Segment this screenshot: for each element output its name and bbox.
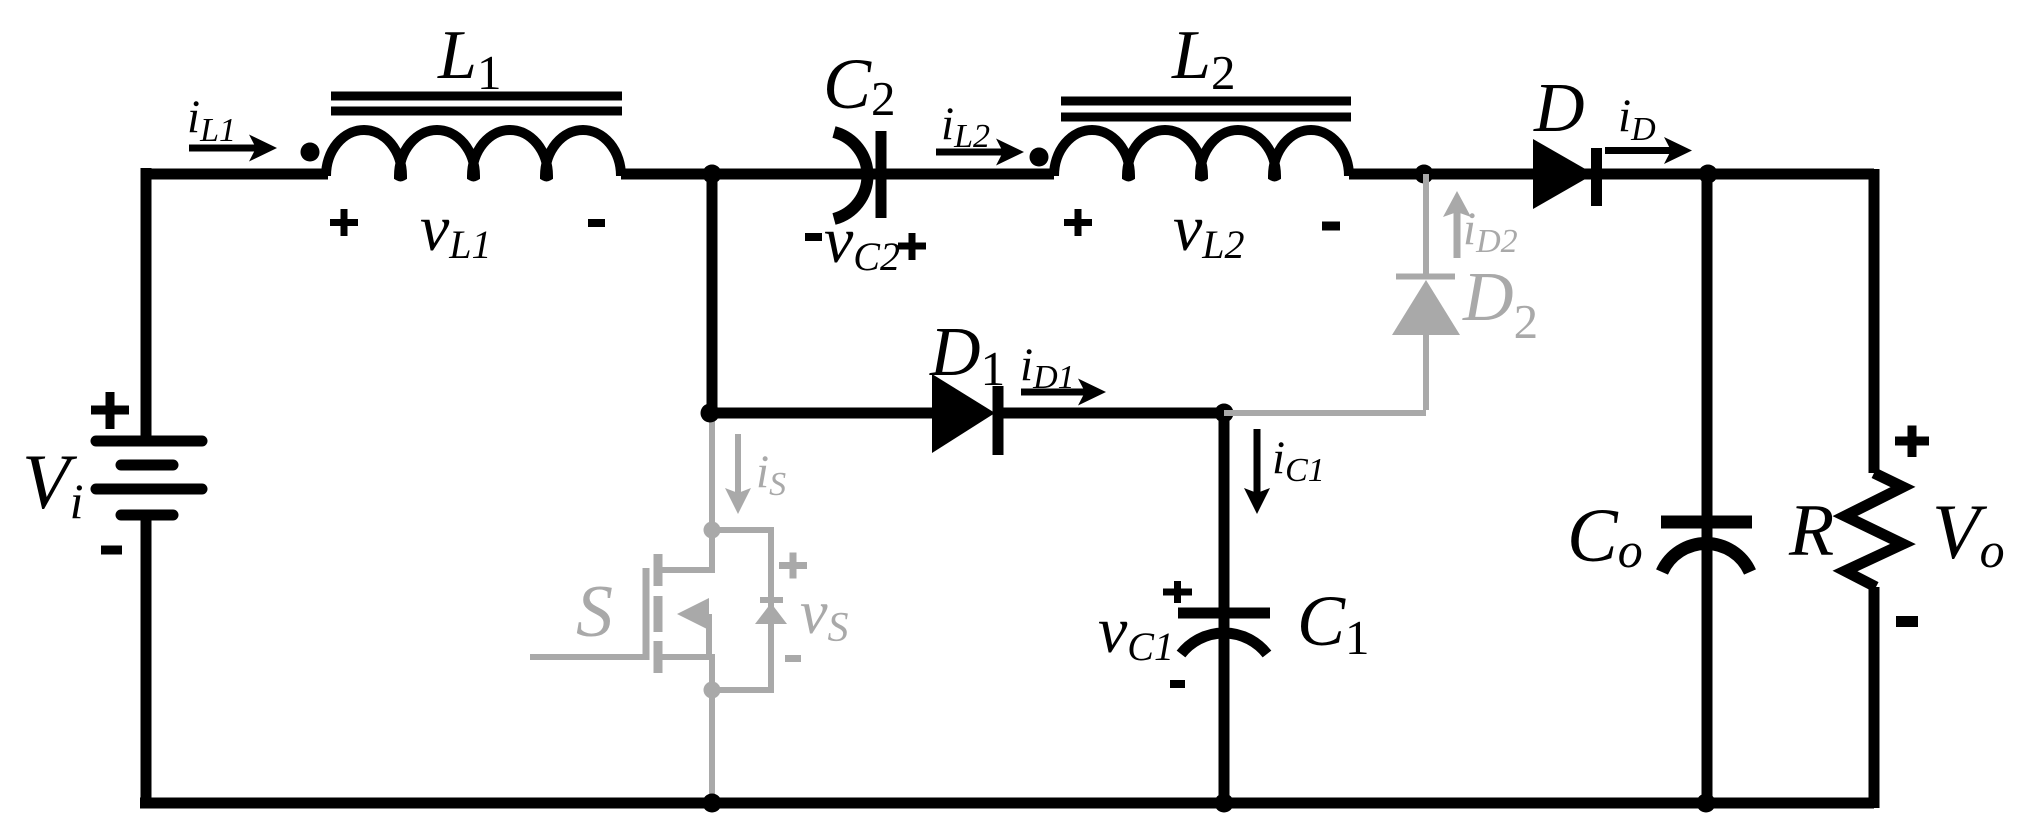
svg-text:vS: vS bbox=[800, 579, 849, 651]
capacitor Co curved plate (bottom) bbox=[1662, 543, 1750, 572]
inductor L2 winding bbox=[1054, 130, 1349, 176]
svg-text:iD2: iD2 bbox=[1463, 203, 1518, 260]
diode D cathode bar bbox=[1591, 148, 1602, 206]
svg-text:C2: C2 bbox=[823, 44, 896, 126]
svg-text:C1: C1 bbox=[1297, 581, 1370, 665]
svg-text:L1: L1 bbox=[437, 17, 501, 100]
wire right vertical lower (R to bottom) bbox=[1869, 587, 1880, 808]
inductor L2 core line lower bbox=[1061, 113, 1351, 122]
wire L1 to C2 bbox=[621, 169, 1054, 180]
inductor L1 core line lower bbox=[331, 107, 622, 116]
wire bottom horizontal rail bbox=[140, 798, 1874, 809]
node dot: D1 cathode / C1 junction bbox=[1215, 404, 1234, 423]
svg-text:S: S bbox=[576, 571, 613, 653]
inductor L1 winding bbox=[326, 130, 621, 176]
diode D1 triangle bbox=[932, 374, 995, 453]
diode D1 cathode bar bbox=[993, 386, 1004, 455]
svg-text:iS: iS bbox=[756, 446, 786, 503]
wire S gate lead bbox=[530, 654, 643, 660]
wire: gray D2 branch bbox=[1224, 174, 1426, 413]
wire D2 vertical upper bbox=[1423, 174, 1429, 274]
diode: S body diode cathode bar (gray) bbox=[760, 597, 783, 603]
wire node A vertical (C2 junction down to D1 anode) bbox=[707, 174, 718, 413]
label + vC1 - bbox=[1163, 581, 1192, 603]
node dot: S source (gray) bbox=[704, 682, 721, 699]
label + vS - (gray) bbox=[779, 553, 807, 579]
label - vC2 + bbox=[805, 233, 822, 241]
arrow iD1 bbox=[1021, 379, 1106, 406]
wire D1 cathode horizontal to C1 node bbox=[1003, 408, 1224, 419]
node dot: bottom rail under C1 bbox=[1215, 794, 1234, 813]
node dot: bottom rail under Co bbox=[1697, 794, 1716, 813]
svg-text:Vi: Vi bbox=[22, 438, 84, 529]
capacitor C2 curved plate bbox=[834, 132, 867, 219]
inductor L2 core line upper bbox=[1061, 97, 1351, 106]
arrow iD bbox=[1605, 137, 1692, 164]
node dot: L2 polarity dot bbox=[1030, 148, 1049, 167]
svg-text:D: D bbox=[1533, 70, 1585, 147]
svg-text:iC1: iC1 bbox=[1272, 432, 1325, 489]
wire top-left horizontal from source to L1 bbox=[146, 169, 328, 180]
arrow iS (gray, down) bbox=[725, 434, 751, 514]
svg-text:iD: iD bbox=[1618, 90, 1656, 148]
node dot: L1 polarity dot bbox=[301, 143, 320, 162]
wire right vertical upper (to R) bbox=[1869, 169, 1880, 473]
wire L2 to diode D bbox=[1349, 169, 1874, 180]
wire left vertical lower (Vi - terminal) bbox=[141, 515, 152, 803]
node dot: bottom rail under S bbox=[703, 794, 722, 813]
svg-text:vC2: vC2 bbox=[824, 204, 900, 279]
transistor S channel bar middle bbox=[654, 596, 663, 632]
arrow iL2 bbox=[936, 139, 1024, 166]
wire C1 top vertical bbox=[1219, 413, 1230, 803]
capacitor Co flat plate (top) bbox=[1661, 516, 1752, 529]
transistor S substrate arrow bbox=[677, 598, 709, 630]
svg-text:iL2: iL2 bbox=[941, 98, 990, 155]
svg-text:vL1: vL1 bbox=[420, 192, 492, 267]
node dot: S drain (gray) bbox=[704, 522, 721, 539]
arrow iD2 (gray, up) bbox=[1443, 191, 1471, 258]
wire D2 vertical lower and horizontal to C1 node bbox=[1224, 335, 1426, 413]
inductor L1 core line upper bbox=[331, 92, 622, 101]
transistor S gate electrode bbox=[643, 568, 650, 660]
wire Co top vertical bbox=[1702, 174, 1713, 803]
capacitor C2 flat plate bbox=[876, 131, 887, 218]
arrow iL1 bbox=[189, 135, 277, 162]
svg-text:vC1: vC1 bbox=[1098, 594, 1174, 669]
wire S body-diode branch bbox=[712, 530, 771, 690]
diode D2 cathode bar (gray) bbox=[1396, 274, 1455, 280]
svg-text:L2: L2 bbox=[1171, 17, 1235, 100]
node dot: D1 anode junction bbox=[701, 404, 720, 423]
arrow iC1 (down) bbox=[1244, 429, 1270, 514]
wire S source lead bbox=[662, 657, 712, 690]
label + vL2 - bbox=[1064, 209, 1092, 236]
battery Vi + label bbox=[91, 392, 129, 429]
node dot: Co top junction bbox=[1699, 165, 1718, 184]
diode D triangle bbox=[1533, 139, 1594, 209]
wire S drain vertical (gray) bbox=[709, 418, 715, 530]
label + vL1 - bbox=[330, 209, 358, 236]
svg-text:D1: D1 bbox=[929, 314, 1005, 396]
node A: junction dot at C2 branch (top) bbox=[703, 165, 722, 184]
transistor S channel bar top bbox=[654, 554, 663, 586]
svg-text:iD1: iD1 bbox=[1020, 339, 1075, 396]
resistor R zigzag bbox=[1845, 473, 1903, 587]
node dot: D2 anode junction (top) bbox=[1415, 165, 1434, 184]
svg-text:Co: Co bbox=[1567, 494, 1643, 578]
wire D1 anode horizontal bbox=[710, 408, 936, 419]
wire left vertical upper (Vi + terminal) bbox=[141, 168, 152, 441]
transistor S channel bar bottom bbox=[654, 641, 663, 673]
label Vo with + - bbox=[1895, 426, 1929, 458]
svg-text:D2: D2 bbox=[1462, 259, 1538, 349]
wire S substrate vertical bbox=[706, 614, 712, 657]
svg-text:R: R bbox=[1788, 490, 1834, 572]
wire S drain lead bbox=[662, 530, 712, 570]
capacitor C1 flat plate (top) bbox=[1178, 608, 1270, 619]
svg-text:vL2: vL2 bbox=[1173, 192, 1245, 267]
diode D2 triangle (gray) bbox=[1392, 280, 1460, 335]
diode: S body diode triangle (gray) bbox=[755, 603, 787, 624]
svg-text:Vo: Vo bbox=[1932, 488, 2005, 578]
transistor S (gray MOSFET) bbox=[530, 418, 771, 800]
wire: main black wires bbox=[140, 168, 1874, 808]
battery Vi - label bbox=[101, 546, 122, 555]
battery Vi bbox=[96, 441, 202, 515]
capacitor C1 curved plate (bottom) bbox=[1181, 633, 1267, 654]
wire S source vertical down to bottom rail (gray) bbox=[709, 690, 715, 800]
svg-text:iL1: iL1 bbox=[187, 91, 236, 149]
